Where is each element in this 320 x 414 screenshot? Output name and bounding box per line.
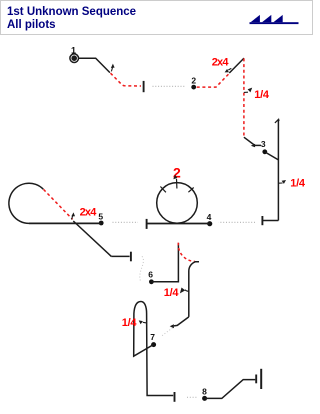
title text: [7, 6, 136, 33]
bottom exit line: [263, 220, 278, 222]
fig1 end tick: [143, 81, 145, 92]
quarter roll mark fig3: [278, 180, 286, 184]
connector dotted 1-2: [153, 85, 185, 87]
connector dotted 6-7: [161, 328, 173, 337]
node 5: [99, 221, 104, 226]
inverted 45-down line (red dashed): [111, 73, 142, 86]
svg-text:1/4: 1/4: [164, 287, 180, 299]
fig4 end tick: [146, 219, 148, 229]
entry diagonal: [266, 152, 279, 160]
roll arrow 2x4 fig5: [71, 212, 75, 219]
quarter roll mark fig7: [139, 320, 147, 324]
upright 45 down (solid): [73, 221, 111, 256]
loop circle: [157, 183, 198, 224]
node 3: [262, 149, 267, 154]
inverted top arc (red dashed): [178, 243, 195, 262]
top hook: [275, 119, 279, 123]
roll arrow 2x4: [225, 68, 232, 72]
node 6: [149, 279, 154, 284]
arrow for label 2: [173, 175, 177, 180]
exit level line fig2: [253, 144, 261, 146]
base line to loop: [29, 222, 101, 224]
sequence end bar: [260, 369, 262, 389]
node 4: [207, 221, 212, 226]
quarter roll mark fig2: [244, 88, 252, 93]
fig3 exit tick: [261, 216, 263, 225]
top of down line hook: [189, 262, 199, 317]
base line: [147, 223, 210, 225]
svg-text:8: 8: [202, 386, 207, 396]
entry + up line: [151, 243, 178, 282]
connector dotted 7-8: [187, 396, 197, 398]
vertical down line (red dashed): [243, 58, 245, 137]
header box: [0, 0, 313, 35]
fig8 end tick: [255, 375, 257, 384]
entry line: [79, 58, 110, 72]
climb-out path: [205, 380, 256, 399]
teardrop loop arc: [9, 183, 43, 223]
connector dotted 4-5: [113, 221, 139, 223]
connector dotted 3-4: [219, 221, 256, 223]
svg-text:7: 7: [150, 332, 155, 342]
fig7 exit tick: [174, 392, 176, 402]
upright 45 up (solid): [229, 58, 244, 73]
pull-out diagonal: [244, 137, 254, 145]
svg-text:3: 3: [261, 139, 266, 149]
start marker circle: [70, 54, 79, 63]
svg-text:6: 6: [148, 270, 153, 280]
exit arrowhead fig2: [251, 144, 255, 148]
node 7: [151, 342, 156, 347]
inverted 45 down (red dashed): [44, 189, 73, 219]
svg-text:1/4: 1/4: [290, 178, 306, 190]
logo: three triangles on baseline: [250, 15, 299, 24]
svg-text:2x4: 2x4: [212, 57, 230, 69]
svg-text:5: 5: [98, 212, 103, 222]
svg-text:2x4: 2x4: [80, 207, 98, 219]
entry diagonal + hairpin: [134, 302, 174, 396]
svg-text:1: 1: [71, 45, 76, 55]
fig5 exit tick: [130, 252, 132, 262]
node 2: [191, 85, 196, 90]
node 8: [202, 396, 207, 401]
svg-text:1/4: 1/4: [122, 317, 138, 329]
connector squiggle 5-6: [140, 256, 144, 281]
circle ticks: [176, 179, 178, 189]
exit level line fig5: [111, 255, 129, 257]
start marker dot: [71, 55, 77, 61]
vertical line: [277, 119, 279, 220]
inverted entry + 45 up (red dashed): [197, 73, 230, 87]
pull-out diagonal fig6: [174, 317, 189, 326]
roll arrow fig1: [111, 64, 115, 72]
svg-text:2: 2: [191, 75, 196, 85]
svg-text:1/4: 1/4: [254, 89, 270, 101]
exit arrowhead fig6: [170, 324, 174, 328]
svg-text:4: 4: [207, 212, 212, 222]
quarter roll mark fig6: [180, 288, 189, 294]
